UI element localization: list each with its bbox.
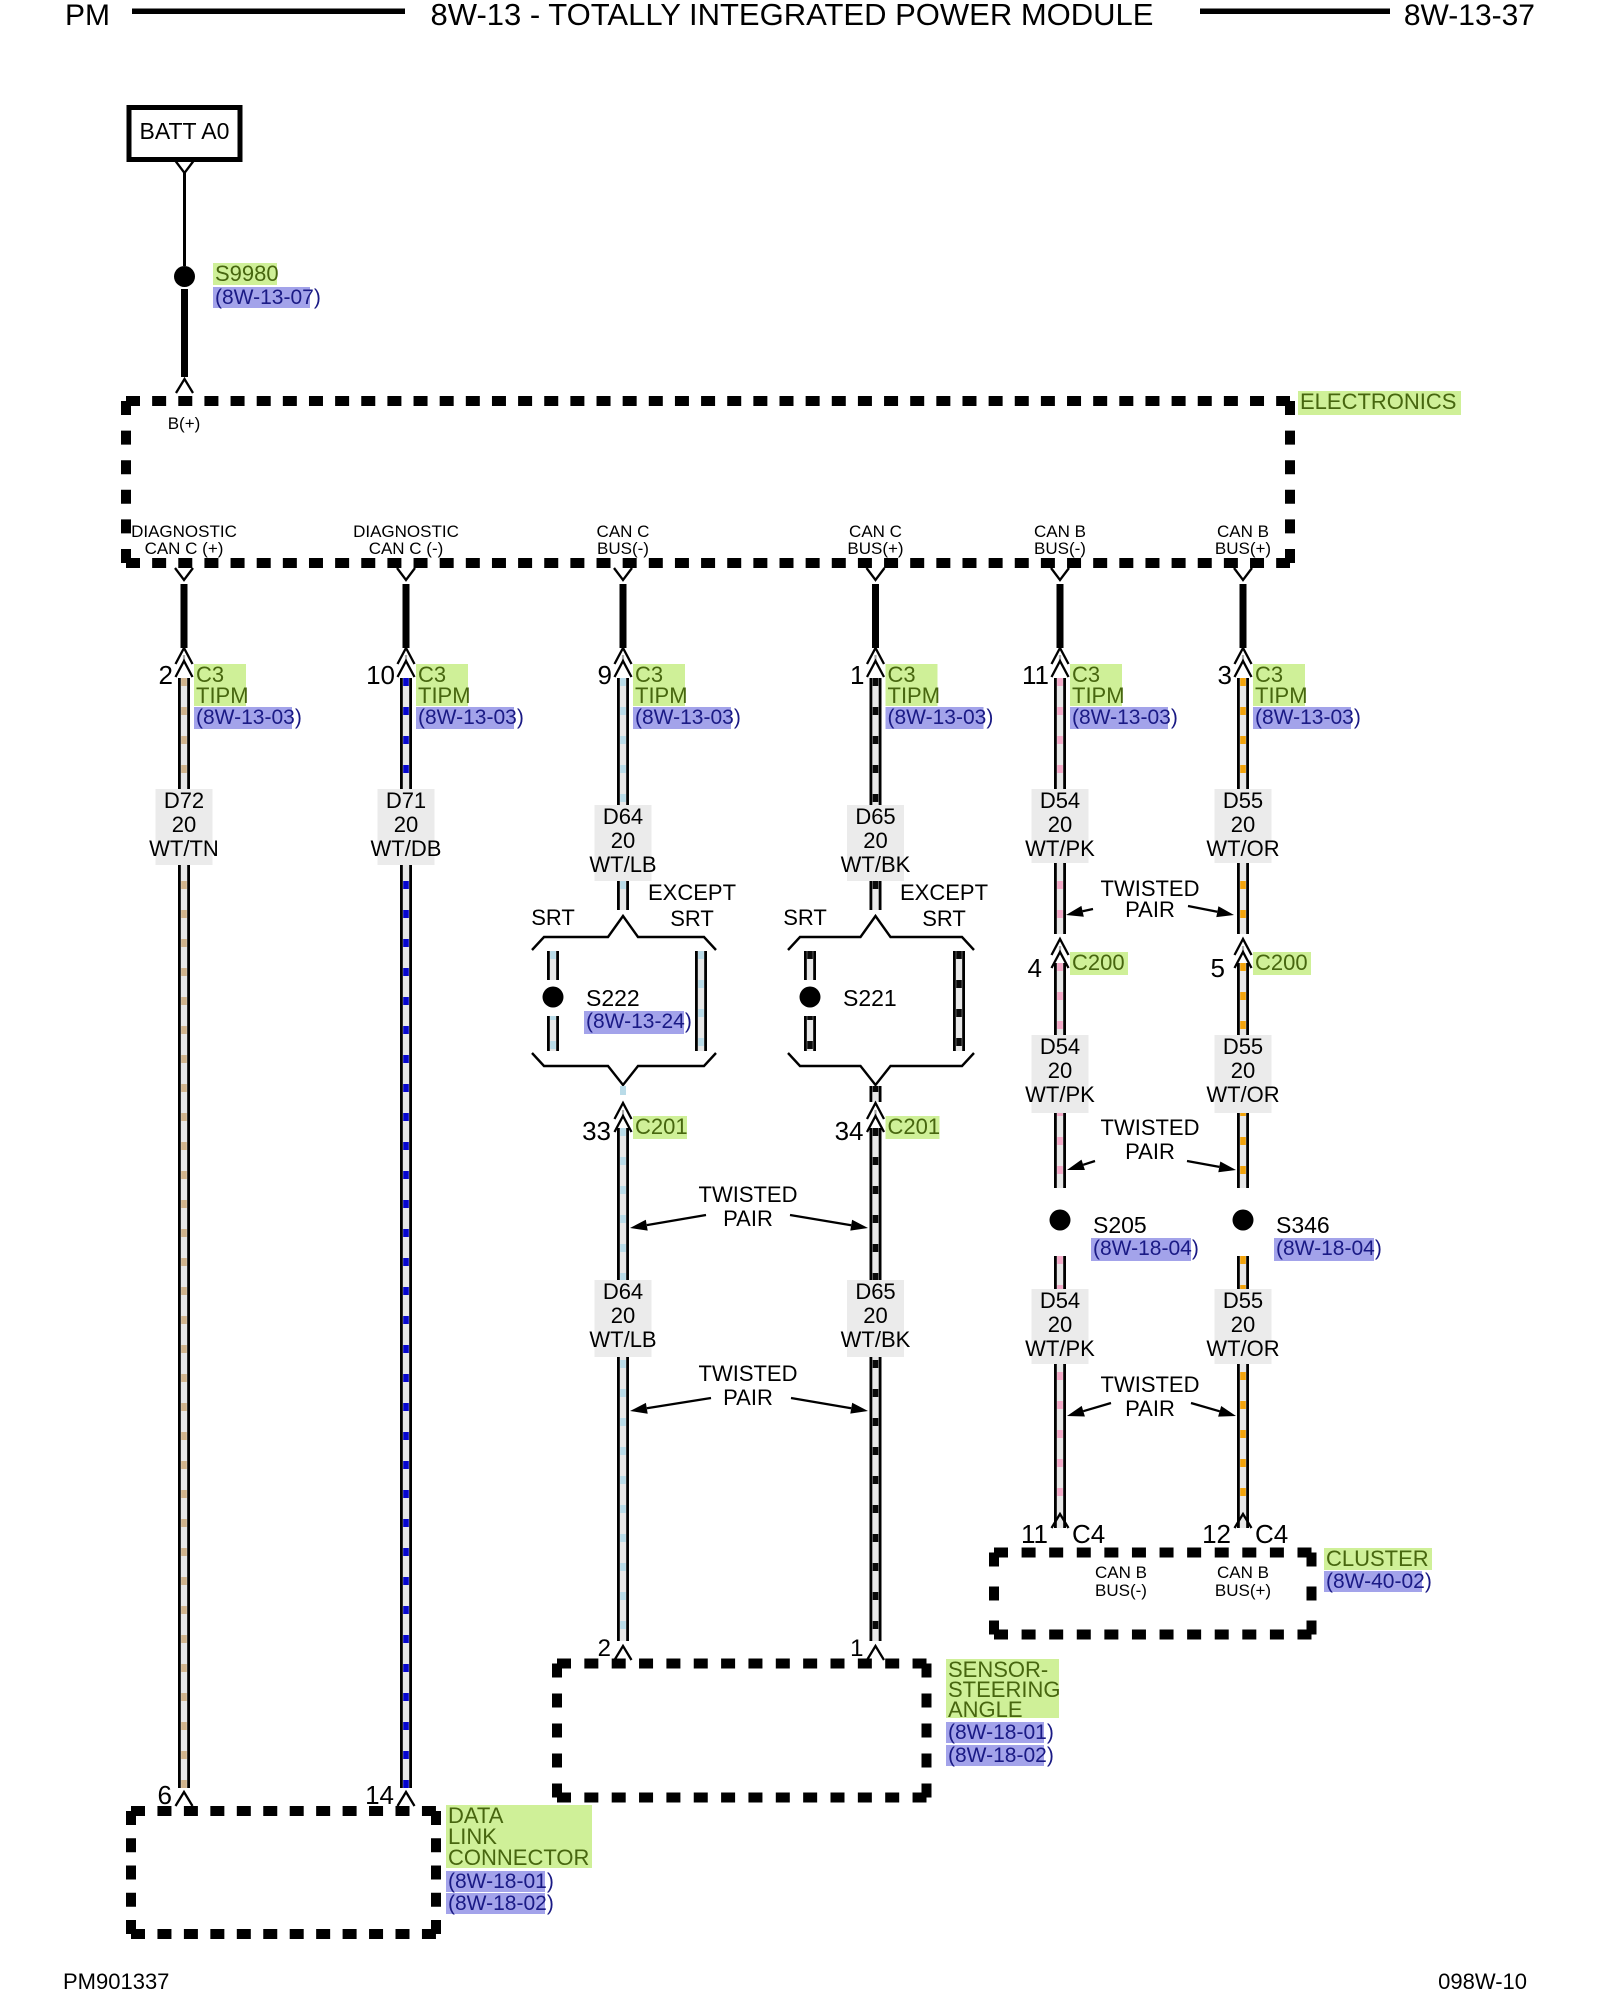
label C3 TIPM at x=623 xyxy=(633,662,688,708)
svg-text:SRT: SRT xyxy=(783,905,827,930)
svg-text:WT/BK: WT/BK xyxy=(841,852,911,877)
label (8W-13-03) at x=406 xyxy=(416,706,524,729)
svg-text:D64: D64 xyxy=(603,804,643,829)
svg-text:C201: C201 xyxy=(635,1114,688,1139)
in-line connector C3 pin 10 xyxy=(366,648,414,690)
svg-text:WT/PK: WT/PK xyxy=(1025,1336,1095,1361)
connector arrow pin 6 into DATA LINK CONNECTOR xyxy=(176,1792,193,1806)
svg-text:WT/TN: WT/TN xyxy=(149,836,219,861)
component box CLUSTER xyxy=(994,1553,1312,1635)
svg-text:4: 4 xyxy=(1028,953,1042,983)
wire D72 20 WT/TN (full run) xyxy=(178,678,190,1788)
svg-text:9: 9 xyxy=(598,660,612,690)
svg-text:(8W-18-01): (8W-18-01) xyxy=(448,1870,554,1893)
svg-text:PAIR: PAIR xyxy=(1125,897,1175,922)
arrow to D54 wire (top note) xyxy=(1066,906,1093,917)
label C3 TIPM at x=1060 xyxy=(1070,662,1125,708)
arrow to D54 wire (bottom note) xyxy=(1067,1403,1111,1417)
svg-text:PAIR: PAIR xyxy=(723,1206,773,1231)
label (8W-18-02) of sensor xyxy=(946,1744,1054,1767)
label (8W-13-03) at x=1243 xyxy=(1253,706,1361,729)
svg-text:D65: D65 xyxy=(855,804,895,829)
svg-text:12: 12 xyxy=(1202,1519,1231,1549)
module pin label CAN B BUS(+) xyxy=(1215,522,1271,558)
connector arrow pin 11 into CLUSTER C4 xyxy=(1052,1514,1069,1528)
arrow to D55 wire (middle note) xyxy=(1187,1161,1236,1172)
svg-text:CAN C (+): CAN C (+) xyxy=(145,539,224,558)
label C3 TIPM at x=875.5 xyxy=(886,662,941,708)
svg-text:1: 1 xyxy=(850,1635,863,1662)
svg-text:S346: S346 xyxy=(1276,1212,1330,1238)
svg-text:CAN B: CAN B xyxy=(1095,1563,1147,1582)
label C200 (col 5) xyxy=(1070,950,1128,975)
power source box BATT A0 xyxy=(129,108,240,160)
svg-text:TIPM: TIPM xyxy=(418,683,471,708)
connector arrow below BATT A0 xyxy=(176,161,194,173)
svg-text:BUS(-): BUS(-) xyxy=(1095,1581,1147,1600)
splice S221 xyxy=(800,987,821,1008)
svg-text:(8W-13-03): (8W-13-03) xyxy=(1072,706,1178,729)
arrow to D55 wire (top note) xyxy=(1188,906,1234,917)
svg-text:WT/DB: WT/DB xyxy=(371,836,442,861)
svg-text:20: 20 xyxy=(1231,812,1255,837)
brace split above S221 xyxy=(788,916,974,950)
svg-text:C201: C201 xyxy=(888,1114,941,1139)
label CLUSTER xyxy=(1324,1546,1432,1571)
wire solid segment below ELECTRONICS x=875.5 xyxy=(872,584,879,648)
label (8W-13-24) xyxy=(584,1010,692,1034)
connector arrow pin 1 into STEERING ANGLE SENSOR xyxy=(867,1646,884,1660)
svg-text:CLUSTER: CLUSTER xyxy=(1326,1546,1429,1571)
wire label D65 20 WT/BK (lower) xyxy=(841,1279,911,1357)
label (8W-18-01) of sensor xyxy=(946,1721,1054,1744)
svg-text:TIPM: TIPM xyxy=(196,683,249,708)
svg-text:S222: S222 xyxy=(586,985,640,1011)
module box ELECTRONICS xyxy=(126,401,1290,563)
label (8W-18-04) of S346 xyxy=(1274,1237,1382,1261)
svg-text:PM: PM xyxy=(65,0,110,32)
wire label D54 20 WT/PK (3) xyxy=(1025,1288,1095,1364)
svg-text:11: 11 xyxy=(1021,1519,1048,1549)
svg-text:20: 20 xyxy=(863,828,887,853)
note TWISTED PAIR (CAN C upper) xyxy=(699,1182,798,1231)
header rule left xyxy=(132,9,405,15)
svg-text:WT/PK: WT/PK xyxy=(1025,1082,1095,1107)
svg-text:S205: S205 xyxy=(1093,1212,1147,1238)
connector arrow out of ELECTRONICS at x=1243 xyxy=(1234,568,1252,580)
svg-text:20: 20 xyxy=(1231,1312,1255,1337)
pin number 12 and connector C4 (right) xyxy=(1202,1519,1288,1549)
arrow to D65 wire (lower note) xyxy=(791,1398,868,1414)
svg-text:WT/OR: WT/OR xyxy=(1206,836,1279,861)
svg-text:SRT: SRT xyxy=(922,906,966,931)
svg-text:2: 2 xyxy=(159,660,173,690)
svg-text:(8W-40-02): (8W-40-02) xyxy=(1326,1570,1432,1593)
svg-text:EXCEPT: EXCEPT xyxy=(900,880,988,905)
svg-text:(8W-13-03): (8W-13-03) xyxy=(196,706,302,729)
svg-text:TWISTED: TWISTED xyxy=(699,1361,798,1386)
wire D54 20 WT/PK segment 3 xyxy=(1054,1256,1066,1528)
svg-text:B(+): B(+) xyxy=(168,414,201,433)
svg-text:TIPM: TIPM xyxy=(1072,683,1125,708)
wire D54 20 WT/PK segment 1 xyxy=(1054,678,1066,934)
label C201 (col 4) xyxy=(886,1114,941,1139)
wire A0 thin segment xyxy=(183,173,186,266)
connector arrow pin 12 into CLUSTER C4 xyxy=(1235,1514,1252,1528)
component box SENSOR-STEERING ANGLE xyxy=(557,1664,927,1798)
svg-text:1: 1 xyxy=(850,660,864,690)
svg-text:5: 5 xyxy=(1211,953,1225,983)
svg-text:D72: D72 xyxy=(164,788,204,813)
svg-text:14: 14 xyxy=(365,1780,394,1810)
arrow to D64 wire (upper note) xyxy=(630,1215,706,1231)
label (8W-18-04) of S205 xyxy=(1091,1237,1199,1261)
svg-text:20: 20 xyxy=(611,828,635,853)
wire SRT branch lower segment (WT/LB) xyxy=(547,1016,559,1051)
svg-text:TIPM: TIPM xyxy=(1255,683,1308,708)
svg-text:(8W-13-03): (8W-13-03) xyxy=(635,706,741,729)
label C3 TIPM at x=406 xyxy=(416,662,471,708)
wire EXCEPT SRT branch (WT/LB) xyxy=(695,951,707,1051)
wire D71 20 WT/DB (full run) xyxy=(400,678,412,1788)
wire D55 20 WT/OR segment 1 xyxy=(1237,678,1249,934)
wire SRT branch upper segment (WT/BK) xyxy=(804,951,816,980)
svg-text:(8W-18-02): (8W-18-02) xyxy=(448,1892,554,1915)
connector arrow out of ELECTRONICS at x=623 xyxy=(614,568,632,580)
label S9980 xyxy=(213,261,279,286)
svg-text:20: 20 xyxy=(394,812,418,837)
module pin label CAN C BUS(-) xyxy=(597,522,650,558)
svg-text:098W-10: 098W-10 xyxy=(1438,1969,1527,1994)
connector arrow out of ELECTRONICS at x=184 xyxy=(175,568,193,580)
svg-text:PM901337: PM901337 xyxy=(63,1969,169,1994)
in-line connector C3 pin 9 xyxy=(598,648,632,690)
svg-text:2: 2 xyxy=(598,1635,611,1662)
wire label D64 20 WT/LB (upper) xyxy=(589,804,656,881)
svg-text:(8W-18-04): (8W-18-04) xyxy=(1093,1237,1199,1260)
module pin label CAN C BUS(+) xyxy=(847,522,903,558)
wire label D54 20 WT/PK (1) xyxy=(1025,788,1095,863)
svg-text:34: 34 xyxy=(835,1116,864,1146)
wire label D55 20 WT/OR (2) xyxy=(1206,1034,1279,1113)
svg-text:3: 3 xyxy=(1218,660,1232,690)
svg-text:20: 20 xyxy=(1048,812,1072,837)
svg-text:D71: D71 xyxy=(386,788,426,813)
svg-text:20: 20 xyxy=(611,1303,635,1328)
svg-text:10: 10 xyxy=(366,660,395,690)
connector arrow out of ELECTRONICS at x=406 xyxy=(397,568,415,580)
svg-text:20: 20 xyxy=(1048,1312,1072,1337)
pin label CAN B BUS(-) inside CLUSTER xyxy=(1095,1563,1147,1600)
svg-text:D65: D65 xyxy=(855,1279,895,1304)
svg-text:BUS(+): BUS(+) xyxy=(847,539,903,558)
brace merge below S221 xyxy=(788,1053,974,1085)
wire D54 20 WT/PK segment 2 xyxy=(1054,963,1066,1188)
svg-text:(8W-13-03): (8W-13-03) xyxy=(1255,706,1361,729)
svg-text:PAIR: PAIR xyxy=(1125,1396,1175,1421)
svg-text:D64: D64 xyxy=(603,1279,643,1304)
splice S346 xyxy=(1233,1210,1254,1231)
note TWISTED PAIR (CAN B middle) xyxy=(1101,1115,1200,1164)
svg-text:(8W-18-02): (8W-18-02) xyxy=(948,1744,1054,1767)
arrow to D55 wire (bottom note) xyxy=(1191,1403,1236,1417)
svg-text:TWISTED: TWISTED xyxy=(699,1182,798,1207)
wire solid segment below ELECTRONICS x=1243 xyxy=(1240,584,1247,648)
svg-text:WT/BK: WT/BK xyxy=(841,1327,911,1352)
pin label CAN B BUS(+) inside CLUSTER xyxy=(1215,1563,1271,1600)
label SENSOR-STEERING ANGLE xyxy=(946,1657,1060,1722)
svg-text:S9980: S9980 xyxy=(215,261,279,286)
in-line connector C3 pin 2 xyxy=(159,648,193,690)
svg-text:BUS(+): BUS(+) xyxy=(1215,1581,1271,1600)
svg-text:WT/PK: WT/PK xyxy=(1025,836,1095,861)
wire D55 20 WT/OR segment 2 xyxy=(1237,963,1249,1188)
in-line connector C200 pin 5 xyxy=(1211,939,1252,983)
svg-text:(8W-13-07): (8W-13-07) xyxy=(215,286,321,309)
label (8W-18-02) of DLC xyxy=(446,1892,554,1915)
svg-text:WT/LB: WT/LB xyxy=(589,852,656,877)
svg-text:CONNECTOR: CONNECTOR xyxy=(448,1845,589,1870)
splice S205 xyxy=(1050,1210,1071,1231)
module pin label DIAGNOSTIC CAN C (+) xyxy=(131,522,237,558)
wire label D65 20 WT/BK (upper) xyxy=(841,804,911,881)
svg-text:SRT: SRT xyxy=(531,905,575,930)
pin number 11 and connector C4 (left) xyxy=(1021,1519,1105,1549)
svg-text:(8W-18-01): (8W-18-01) xyxy=(948,1721,1054,1744)
svg-text:BATT A0: BATT A0 xyxy=(140,118,230,144)
in-line connector C3 pin 11 xyxy=(1022,648,1069,690)
svg-text:S221: S221 xyxy=(843,985,897,1011)
svg-text:33: 33 xyxy=(582,1116,611,1146)
wire D55 20 WT/OR segment 3 xyxy=(1237,1256,1249,1528)
svg-text:PAIR: PAIR xyxy=(723,1385,773,1410)
wire solid segment below ELECTRONICS x=623 xyxy=(620,584,627,648)
svg-text:D55: D55 xyxy=(1223,1034,1263,1059)
wire solid segment below ELECTRONICS x=1060 xyxy=(1057,584,1064,648)
svg-text:20: 20 xyxy=(863,1303,887,1328)
in-line connector C3 pin 3 xyxy=(1218,648,1252,690)
svg-text:11: 11 xyxy=(1022,660,1049,690)
wire D65 20 WT/BK lower segment xyxy=(870,1128,882,1641)
label C3 TIPM at x=184 xyxy=(194,662,249,708)
arrow to D64 wire (lower note) xyxy=(630,1398,711,1414)
wire D64 20 WT/LB upper segment xyxy=(617,678,629,910)
svg-text:TIPM: TIPM xyxy=(635,683,688,708)
wire SRT branch lower segment (WT/BK) xyxy=(804,1016,816,1051)
svg-text:(8W-13-03): (8W-13-03) xyxy=(418,706,524,729)
splice S9980 xyxy=(174,266,195,287)
svg-text:ANGLE: ANGLE xyxy=(948,1697,1023,1722)
label (8W-18-01) of DLC xyxy=(446,1870,554,1893)
svg-text:20: 20 xyxy=(1231,1058,1255,1083)
label C200 (col 6) xyxy=(1253,950,1311,975)
connector arrow pin 2 into STEERING ANGLE SENSOR xyxy=(615,1646,632,1660)
label C201 (col 3) xyxy=(633,1114,688,1139)
svg-text:6: 6 xyxy=(158,1780,172,1810)
svg-text:SRT: SRT xyxy=(670,906,714,931)
svg-text:WT/OR: WT/OR xyxy=(1206,1336,1279,1361)
wire EXCEPT SRT branch (WT/BK) xyxy=(953,951,965,1051)
splice S222 xyxy=(543,987,564,1008)
note TWISTED PAIR (CAN B top) xyxy=(1101,876,1200,922)
svg-text:20: 20 xyxy=(172,812,196,837)
arrow to D65 wire (upper note) xyxy=(790,1215,868,1231)
wire label D71 20 WT/DB xyxy=(371,788,442,865)
svg-text:BUS(-): BUS(-) xyxy=(597,539,649,558)
svg-text:CAN C (-): CAN C (-) xyxy=(369,539,444,558)
svg-text:TIPM: TIPM xyxy=(888,683,941,708)
svg-text:C4: C4 xyxy=(1072,1519,1105,1549)
svg-text:8W-13-37: 8W-13-37 xyxy=(1404,0,1535,32)
in-line connector C201 pin 33 xyxy=(582,1103,631,1146)
svg-text:WT/LB: WT/LB xyxy=(589,1327,656,1352)
svg-text:D55: D55 xyxy=(1223,1288,1263,1313)
svg-text:C4: C4 xyxy=(1255,1519,1288,1549)
wire label D64 20 WT/LB (lower) xyxy=(589,1279,656,1357)
svg-text:(8W-18-04): (8W-18-04) xyxy=(1276,1237,1382,1260)
svg-text:BUS(-): BUS(-) xyxy=(1034,539,1086,558)
svg-text:ELECTRONICS: ELECTRONICS xyxy=(1300,389,1456,414)
label ELECTRONICS xyxy=(1298,389,1461,415)
component box DATA LINK CONNECTOR xyxy=(131,1811,436,1934)
label (8W-13-03) at x=184 xyxy=(194,706,302,729)
svg-text:D54: D54 xyxy=(1040,1034,1080,1059)
label (8W-13-03) at x=1060 xyxy=(1070,706,1178,729)
label C3 TIPM at x=1243 xyxy=(1253,662,1308,708)
label (8W-13-07) xyxy=(213,286,321,309)
brace split above S222 xyxy=(532,916,716,950)
wire stub below brace (WT/BK) xyxy=(870,1086,882,1102)
in-line connector C201 pin 34 xyxy=(835,1103,884,1146)
connector arrow out of ELECTRONICS at x=875.5 xyxy=(867,568,885,580)
connector arrow out of ELECTRONICS at x=1060 xyxy=(1051,568,1069,580)
wire solid segment below ELECTRONICS x=184 xyxy=(181,584,188,648)
label DATA LINK CONNECTOR xyxy=(446,1803,592,1870)
in-line connector C200 pin 4 xyxy=(1028,939,1069,983)
svg-text:D54: D54 xyxy=(1040,1288,1080,1313)
wire solid segment below ELECTRONICS x=406 xyxy=(403,584,410,648)
svg-text:20: 20 xyxy=(1048,1058,1072,1083)
wire label D55 20 WT/OR (3) xyxy=(1206,1288,1279,1364)
svg-text:(8W-13-24): (8W-13-24) xyxy=(586,1010,692,1033)
wire label D54 20 WT/PK (2) xyxy=(1025,1034,1095,1113)
label (8W-13-03) at x=623 xyxy=(633,706,741,729)
wire SRT branch upper segment (WT/LB) xyxy=(547,951,559,980)
svg-text:C200: C200 xyxy=(1072,950,1125,975)
svg-text:PAIR: PAIR xyxy=(1125,1139,1175,1164)
svg-text:(8W-13-03): (8W-13-03) xyxy=(888,706,994,729)
note TWISTED PAIR (CAN B bottom) xyxy=(1101,1372,1200,1421)
wire A0 thick segment xyxy=(181,289,188,377)
label EXCEPT SRT (right branch of S221) xyxy=(900,880,988,931)
wire label D55 20 WT/OR (1) xyxy=(1206,788,1279,863)
connector arrow pin 14 into DATA LINK CONNECTOR xyxy=(398,1792,415,1806)
label (8W-13-03) at x=875.5 xyxy=(886,706,994,729)
note TWISTED PAIR (CAN C lower) xyxy=(699,1361,798,1410)
wire stub below brace (WT/LB) xyxy=(620,1086,626,1095)
svg-text:8W-13 - TOTALLY INTEGRATED POW: 8W-13 - TOTALLY INTEGRATED POWER MODULE xyxy=(431,0,1154,32)
svg-text:EXCEPT: EXCEPT xyxy=(648,880,736,905)
module pin label DIAGNOSTIC CAN C (-) xyxy=(353,522,459,558)
svg-text:D54: D54 xyxy=(1040,788,1080,813)
arrow to D54 wire (middle note) xyxy=(1067,1160,1095,1170)
label EXCEPT SRT (right branch of S222) xyxy=(648,880,736,931)
header rule right xyxy=(1200,9,1390,15)
brace merge below S222 xyxy=(532,1053,716,1085)
connector arrow B(+) into ELECTRONICS xyxy=(176,379,193,393)
svg-text:C200: C200 xyxy=(1255,950,1308,975)
wire D65 20 WT/BK upper segment xyxy=(870,678,882,910)
wire D64 20 WT/LB lower segment xyxy=(617,1128,629,1641)
svg-text:TWISTED: TWISTED xyxy=(1101,1372,1200,1397)
svg-text:WT/OR: WT/OR xyxy=(1206,1082,1279,1107)
svg-text:D55: D55 xyxy=(1223,788,1263,813)
svg-text:TWISTED: TWISTED xyxy=(1101,1115,1200,1140)
svg-text:BUS(+): BUS(+) xyxy=(1215,539,1271,558)
in-line connector C3 pin 1 xyxy=(850,648,884,690)
wire label D72 20 WT/TN xyxy=(149,788,219,865)
svg-text:CAN B: CAN B xyxy=(1217,1563,1269,1582)
label (8W-40-02) xyxy=(1324,1570,1432,1593)
module pin label CAN B BUS(-) xyxy=(1034,522,1086,558)
